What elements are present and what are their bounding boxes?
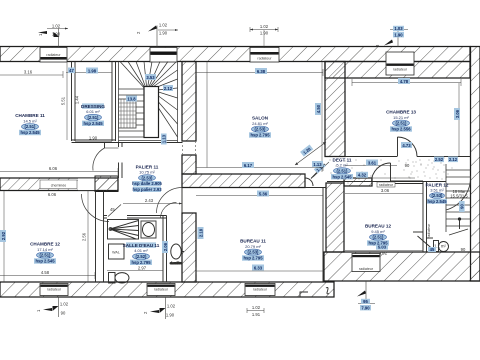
window bottom B1 (chambre 12) — [40, 284, 68, 296]
blue dim bureau12 right rotated — [459, 201, 465, 212]
partition salle d'eau right — [163, 216, 167, 283]
stair upper winders — [119, 62, 178, 143]
bureau12 SE diagonal door to wc — [413, 232, 436, 252]
stair blue dims — [145, 74, 156, 80]
cheminee breast block (right end) — [95, 176, 118, 192]
radiator box degt/bureau12 — [377, 182, 395, 187]
svg-text:radiateur: radiateur — [379, 183, 394, 187]
svg-text:4.32: 4.32 — [358, 173, 367, 178]
svg-text:5.51: 5.51 — [61, 96, 66, 105]
boundary degagement / chambre13 with door — [327, 157, 471, 182]
dim 1.98 blue + 47 (dressing top) — [66, 72, 112, 74]
svg-text:90: 90 — [405, 163, 410, 168]
svg-text:95: 95 — [363, 299, 368, 304]
dim above salon window W2 — [250, 24, 278, 47]
stair to ground floor (bottom right) — [446, 164, 471, 235]
degagement dims — [345, 165, 397, 167]
svg-text:(2.53): (2.53) — [432, 193, 444, 198]
svg-text:2.92: 2.92 — [1, 231, 6, 240]
door chambre12 arc — [82, 194, 110, 222]
wall top (exterior north wall) — [0, 47, 470, 79]
svg-text:3.16: 3.16 — [24, 70, 33, 75]
dim under bureau11 window — [247, 305, 264, 317]
dim vertical left edge chambre12 — [3, 191, 5, 283]
svg-text:radiateur: radiateur — [393, 68, 408, 72]
partition bureau12 right — [423, 181, 427, 252]
svg-text:1.90: 1.90 — [159, 31, 168, 36]
room label PALIER 12 (allee) — [426, 183, 449, 204]
section marker 1 bottom — [36, 297, 69, 317]
svg-text:20.79 m²: 20.79 m² — [245, 244, 261, 249]
svg-text:hsp 2.795: hsp 2.795 — [243, 256, 263, 261]
svg-text:1.03: 1.03 — [394, 26, 403, 31]
svg-text:1.90: 1.90 — [260, 31, 269, 36]
door salle d'eau leaf — [108, 205, 121, 217]
svg-text:3.06: 3.06 — [381, 188, 390, 193]
svg-text:(2.51): (2.51) — [25, 124, 37, 129]
svg-text:(2.53): (2.53) — [248, 250, 260, 255]
room label SALON — [249, 116, 271, 138]
window bottom B2 (salle d'eau) — [147, 284, 175, 296]
dim line 6.38 (salon top, blue) — [196, 69, 323, 76]
svg-text:14.5 m²: 14.5 m² — [23, 118, 37, 123]
svg-text:1.02: 1.02 — [52, 24, 61, 29]
svg-text:4.50: 4.50 — [316, 104, 321, 113]
dim vertical 5.51 — [66, 62, 68, 141]
dim vertical blue (bureau11 left) — [198, 227, 204, 239]
wc partition + toilet — [427, 238, 449, 252]
svg-text:5.2 m²: 5.2 m² — [336, 163, 348, 168]
svg-text:7.90: 7.90 — [361, 305, 370, 310]
svg-text:1.02: 1.02 — [167, 304, 176, 309]
svg-text:9.45 m²: 9.45 m² — [371, 229, 385, 234]
svg-text:hsp 2.795: hsp 2.795 — [368, 241, 388, 246]
svg-text:6.33: 6.33 — [254, 265, 263, 270]
room label BUREAU 12 — [365, 224, 391, 246]
svg-text:2.52: 2.52 — [435, 157, 444, 162]
salon door SE corner — [305, 164, 325, 188]
svg-text:1.02: 1.02 — [60, 302, 69, 307]
svg-text:radiateur: radiateur — [47, 288, 62, 292]
svg-text:1.02: 1.02 — [159, 23, 168, 28]
room label CHAMBRE 11 — [15, 113, 45, 135]
svg-text:90: 90 — [61, 311, 66, 316]
svg-text:13.8: 13.8 — [127, 96, 136, 101]
svg-text:6.06: 6.06 — [48, 192, 57, 197]
svg-text:2.12: 2.12 — [449, 157, 458, 162]
svg-text:1.90: 1.90 — [89, 136, 98, 141]
room label DRESSING — [81, 103, 105, 126]
svg-text:(2.51): (2.51) — [88, 115, 100, 120]
wall bottom main (south) — [0, 282, 334, 297]
dim line 6.17 (salon bottom) — [196, 164, 323, 171]
svg-text:CHAMBRE 13: CHAMBRE 13 — [386, 110, 416, 115]
svg-text:2.56: 2.56 — [82, 232, 87, 241]
stair newel — [458, 217, 461, 220]
svg-text:45: 45 — [430, 247, 435, 252]
svg-text:radiateur: radiateur — [46, 53, 61, 57]
svg-text:(2.52): (2.52) — [136, 254, 148, 259]
dim line 2.43 (palier) — [123, 203, 182, 205]
svg-text:(2.51): (2.51) — [396, 121, 408, 126]
wall bureau11 left — [182, 213, 196, 282]
svg-text:hsp dalle 2.905: hsp dalle 2.905 — [132, 181, 162, 186]
svg-text:hsp 2.545: hsp 2.545 — [332, 174, 352, 179]
svg-text:3.02: 3.02 — [379, 251, 388, 256]
fixture washing machine WAL — [109, 244, 125, 259]
bottom-right step + squiggle — [300, 287, 329, 297]
svg-text:6.06: 6.06 — [49, 166, 58, 171]
dim line 6.06 (chambre11 bottom) — [0, 168, 118, 175]
dim vertical blue 2.06 (salle d'eau right) — [162, 241, 168, 253]
svg-text:radiateur: radiateur — [253, 288, 268, 292]
svg-text:radiateur: radiateur — [257, 57, 272, 61]
section marker bottom right (under bureau12 window) — [357, 281, 375, 310]
wall degagement/bureau12 top — [344, 178, 372, 186]
room label CHAMBRE 12 — [30, 242, 60, 264]
wall bottom right (recessed south wall) — [324, 252, 480, 281]
diagonal dims at salon door — [295, 142, 329, 177]
stair void (tremie) — [144, 87, 159, 138]
svg-text:(2.51): (2.51) — [337, 168, 349, 173]
svg-text:4.73: 4.73 — [402, 143, 411, 148]
dim line 6.33 (bureau11 bottom, blue) — [196, 268, 323, 275]
dim line 2.97 (salle d'eau bottom) — [107, 270, 163, 272]
svg-text:47: 47 — [69, 68, 74, 73]
svg-text:BUREAU 12: BUREAU 12 — [365, 224, 391, 229]
svg-text:radiateur: radiateur — [427, 223, 431, 238]
svg-text:1.13: 1.13 — [313, 162, 322, 167]
fixture toilet (salle d'eau) — [109, 273, 130, 284]
stair note 16 marches — [450, 189, 468, 199]
salon inner vertical line — [206, 62, 208, 168]
svg-text:SALON: SALON — [252, 116, 269, 121]
window stair landing top — [150, 48, 177, 63]
dim line 5.36 (bureau11 top, blue) — [196, 195, 323, 197]
svg-text:WAL: WAL — [112, 251, 120, 255]
partition dressing bottom — [72, 140, 183, 143]
section marker 3 top — [375, 26, 408, 47]
partition salle d'eau top with door — [104, 216, 167, 219]
svg-text:hsp 2.795: hsp 2.795 — [250, 133, 270, 138]
window W2 top (salon) — [250, 48, 279, 63]
door bureau11 arc (in left wall gap) — [157, 188, 183, 214]
wall cheminee (between chambre 11 and chambre 12) — [0, 178, 118, 191]
dim vertical 4.50 (salon right, blue) — [321, 62, 323, 173]
svg-text:4.58: 4.58 — [41, 270, 50, 275]
svg-text:2.12: 2.12 — [164, 86, 173, 91]
svg-text:BUREAU 11: BUREAU 11 — [240, 239, 266, 244]
svg-text:hsp 2.545: hsp 2.545 — [35, 259, 55, 264]
room label CHAMBRE 13 — [386, 110, 416, 132]
svg-text:2.43: 2.43 — [145, 198, 154, 203]
fixture boiler (corridor) — [170, 244, 184, 265]
door chambre13 leaf+arc — [398, 137, 418, 157]
svg-text:15.5/31.5: 15.5/31.5 — [450, 194, 468, 199]
dim vertical 3.06 (chambre13 right, blue) — [458, 83, 460, 156]
svg-text:1.02: 1.02 — [252, 305, 261, 310]
svg-text:hsp 2.795: hsp 2.795 — [131, 260, 151, 265]
svg-text:hsp 2.545: hsp 2.545 — [83, 121, 103, 126]
svg-text:6.01 m²: 6.01 m² — [86, 109, 100, 114]
svg-text:2.97: 2.97 — [138, 265, 147, 270]
svg-text:6.17: 6.17 — [244, 163, 253, 168]
svg-text:3.51 m²: 3.51 m² — [430, 188, 444, 193]
dim line 4.58 (chambre12 bottom) — [0, 272, 95, 279]
svg-text:24.81 m²: 24.81 m² — [252, 121, 268, 126]
svg-text:1.44: 1.44 — [75, 95, 80, 104]
window W1 top (chambre 11) — [40, 48, 67, 63]
svg-text:3.06: 3.06 — [455, 109, 460, 118]
right exterior wall — [471, 47, 480, 282]
bureau12 dims — [345, 193, 423, 195]
svg-text:6.38: 6.38 — [257, 69, 266, 74]
open passage palier->salon (dashed) — [182, 141, 195, 155]
window W3 top (chambre 13, recessed) — [386, 52, 414, 75]
svg-text:3.61: 3.61 — [368, 160, 377, 165]
door chambre11 arc — [93, 148, 105, 171]
door bureau12 leaf+arc — [372, 163, 424, 184]
svg-text:45: 45 — [110, 207, 115, 212]
section marker 2 bottom — [143, 297, 176, 319]
svg-text:1.90: 1.90 — [394, 32, 403, 37]
svg-text:90: 90 — [461, 247, 466, 252]
svg-text:CHAMBRE 12: CHAMBRE 12 — [30, 242, 60, 247]
fixture shower (salle d'eau) — [108, 220, 139, 240]
bureau11 right edge line — [322, 188, 324, 283]
svg-text:hsp 2.556: hsp 2.556 — [391, 127, 411, 132]
room label BUREAU 11 — [240, 239, 266, 261]
svg-text:1.98: 1.98 — [88, 68, 97, 73]
svg-text:4.01 m²: 4.01 m² — [134, 248, 148, 253]
partition chambre11/dressing — [72, 62, 76, 142]
svg-text:10.75 m²: 10.75 m² — [139, 170, 155, 175]
stair section-cut hatched block — [119, 99, 137, 128]
wall bureau11/bureau12 — [326, 183, 344, 252]
svg-text:SALLE D'EAU 11: SALLE D'EAU 11 — [123, 243, 160, 248]
svg-text:1.02: 1.02 — [260, 24, 269, 29]
svg-text:(2.51): (2.51) — [373, 235, 385, 240]
svg-text:1.90: 1.90 — [166, 313, 175, 318]
svg-text:radiateur: radiateur — [359, 267, 374, 271]
room label PALIER 11 — [132, 165, 162, 193]
svg-text:1.91: 1.91 — [252, 312, 261, 317]
svg-text:5.36: 5.36 — [259, 191, 268, 196]
dim vertical 2.56 (chambre12 right) — [87, 191, 89, 283]
room label SALLE D'EAU 11 — [123, 242, 160, 265]
dim line 3.16 (chambre11 top) — [0, 71, 63, 78]
svg-text:2.06: 2.06 — [163, 242, 168, 251]
svg-text:hsp 2.545: hsp 2.545 — [20, 130, 40, 135]
fixture washbasin (salle d'eau) — [141, 221, 156, 238]
svg-text:1.13: 1.13 — [162, 134, 167, 143]
svg-text:(2.51): (2.51) — [40, 253, 52, 258]
svg-text:radiateur: radiateur — [154, 288, 169, 292]
svg-text:chaudière: chaudière — [170, 261, 183, 265]
partition dressing right — [112, 62, 116, 142]
section marker 2 top — [136, 23, 178, 48]
svg-text:2.18: 2.18 — [198, 228, 203, 237]
wall salon left / stair hall right — [182, 62, 196, 142]
svg-text:hsp palier 2.93: hsp palier 2.93 — [132, 187, 162, 192]
svg-text:90: 90 — [460, 204, 465, 209]
svg-text:CHAMBRE 11: CHAMBRE 11 — [15, 113, 45, 118]
svg-text:(2.53): (2.53) — [142, 175, 154, 180]
svg-text:(2.53): (2.53) — [255, 127, 267, 132]
window bottom B4 (bureau 12, recessed wall) — [352, 254, 380, 272]
partition chambre12/salle d'eau — [96, 191, 104, 283]
dim line 1.90 (dressing bottom) — [75, 141, 112, 143]
room label DEGT 11 — [331, 158, 353, 180]
degagement floor speckles — [330, 158, 453, 184]
partition palier/chambre11 with door gap — [119, 143, 123, 179]
svg-text:4.78: 4.78 — [400, 79, 409, 84]
wall salon bottom / bureau11 top — [182, 174, 305, 188]
stair lower flight treads — [119, 95, 178, 141]
dim line 4.78 (chambre13 top, blue) — [352, 79, 461, 86]
door palier/corridor arc — [161, 203, 177, 219]
wall salon/chambre13 — [325, 62, 345, 157]
svg-text:hsp 2.545: hsp 2.545 — [427, 199, 447, 204]
window bottom B3 (bureau 11) — [245, 284, 275, 296]
svg-text:17.14 m²: 17.14 m² — [37, 247, 53, 252]
svg-text:3.53: 3.53 — [146, 75, 155, 80]
svg-text:cheminée: cheminée — [51, 183, 67, 187]
section marker 1 top — [38, 24, 68, 48]
allee blue dims — [434, 157, 444, 163]
svg-text:15.21 m²: 15.21 m² — [393, 115, 409, 120]
svg-text:DRESSING: DRESSING — [81, 104, 105, 109]
